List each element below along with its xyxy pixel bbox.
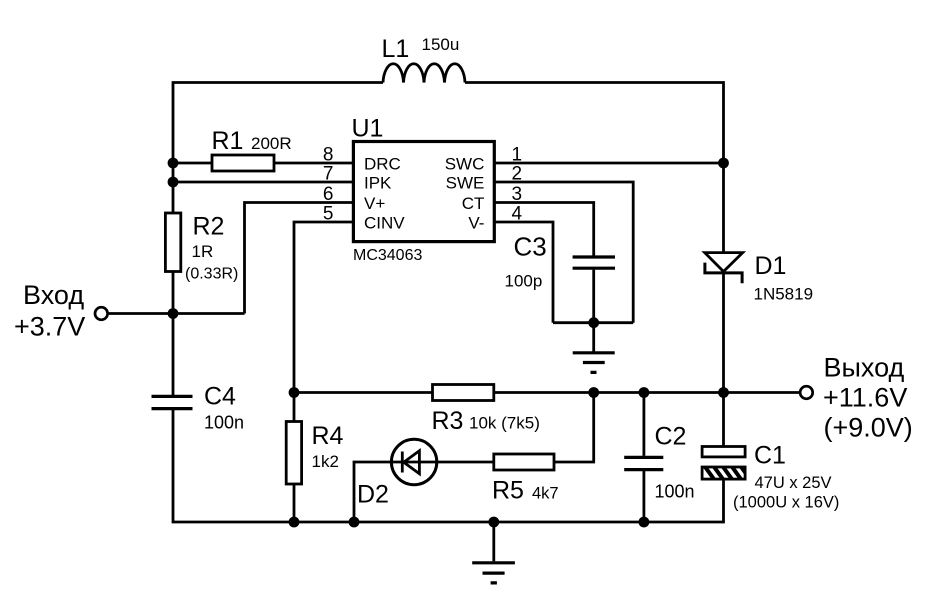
capacitor C3	[573, 257, 615, 268]
svg-text:DRC: DRC	[364, 155, 401, 174]
svg-text:150u: 150u	[422, 35, 460, 54]
svg-text:R4: R4	[312, 422, 344, 450]
output terminal	[800, 386, 813, 399]
resistor R5	[494, 454, 554, 470]
ground near C3	[573, 353, 615, 373]
diode D1 schottky	[705, 253, 743, 272]
svg-text:3: 3	[512, 184, 523, 205]
svg-text:SWC: SWC	[445, 155, 485, 174]
svg-text:IPK: IPK	[364, 174, 392, 193]
wire R2 bottom to C4 top	[172, 272, 175, 397]
node IPK junction	[168, 177, 179, 188]
node output junction	[718, 387, 729, 398]
svg-text:SWE: SWE	[446, 174, 485, 193]
diode D2	[391, 439, 436, 484]
node C2 bottom junction	[639, 517, 650, 528]
svg-text:CT: CT	[462, 194, 485, 213]
svg-text:+3.7V: +3.7V	[14, 312, 85, 342]
capacitor C1 polarized	[702, 447, 745, 457]
svg-text:1: 1	[512, 145, 523, 166]
svg-text:CINV: CINV	[364, 214, 405, 233]
svg-text:D1: D1	[755, 252, 787, 280]
svg-text:V+: V+	[364, 194, 385, 213]
wire pin 7 row to IPK	[173, 181, 353, 184]
resistor R4	[286, 422, 301, 485]
wire R5 drop from feedback row	[554, 393, 594, 463]
svg-text:R1: R1	[212, 127, 244, 155]
wire C3 bottom stem and ground stub	[592, 270, 595, 353]
svg-text:D2: D2	[357, 481, 389, 509]
wire C1 top stem	[722, 393, 725, 447]
svg-text:C2: C2	[655, 423, 687, 451]
svg-text:47U x 25V: 47U x 25V	[755, 474, 832, 492]
svg-text:R2: R2	[193, 213, 225, 241]
wire pin 8 row through R1	[173, 162, 353, 165]
capacitor C4	[152, 396, 193, 408]
wire pin 5 CINV branch down to feedback row	[294, 222, 353, 393]
node R4 top junction	[289, 387, 300, 398]
wire pin 1 SWC row	[494, 162, 723, 165]
node R1 top junction	[168, 158, 179, 169]
node SWC junction	[718, 158, 729, 169]
svg-text:100n: 100n	[204, 413, 244, 433]
resistor R1	[212, 155, 274, 171]
svg-text:4k7: 4k7	[532, 485, 559, 503]
inductor L1	[383, 64, 465, 83]
wire D1 bottom stem	[722, 272, 725, 393]
wire D2 left branch to bottom rail	[354, 462, 390, 522]
wire C2 stems	[643, 393, 646, 523]
wire pin 4 V- branch	[494, 222, 553, 323]
wire C4 bottom, bottom rail, up to C1	[173, 409, 724, 522]
wire pin 6 V+ branch	[245, 203, 354, 314]
wire input row	[109, 312, 245, 315]
node ground junction	[488, 517, 499, 528]
svg-text:1N5819: 1N5819	[754, 285, 814, 304]
wire top-left rail from R2 top up and across to L1	[173, 83, 383, 214]
svg-text:C3: C3	[514, 232, 547, 262]
wire ground stub bottom	[492, 522, 495, 561]
node input junction	[168, 308, 179, 319]
svg-text:7: 7	[323, 164, 334, 185]
node C2 top junction	[639, 387, 650, 398]
ground bottom rail	[472, 563, 515, 583]
node C3 ground junction	[588, 317, 599, 328]
svg-text:R3: R3	[432, 407, 464, 435]
wire R5 to D2	[390, 461, 494, 464]
svg-text:U1: U1	[352, 115, 384, 143]
svg-text:6: 6	[323, 184, 334, 205]
svg-text:100p: 100p	[505, 272, 543, 291]
node R5 drop junction	[588, 387, 599, 398]
op-amp U1 box MC34063	[353, 142, 494, 242]
wire C3 bottom rail	[553, 321, 633, 324]
svg-text:100n: 100n	[655, 482, 695, 502]
svg-text:C1: C1	[754, 442, 786, 470]
wire pin 3 CT branch to C3	[494, 203, 593, 256]
svg-text:R5: R5	[492, 477, 524, 505]
resistor R3	[433, 385, 494, 401]
svg-text:Вход: Вход	[23, 280, 84, 310]
svg-text:10k (7k5): 10k (7k5)	[469, 414, 540, 433]
svg-text:200R: 200R	[251, 134, 292, 153]
svg-text:L1: L1	[382, 35, 410, 63]
svg-text:(0.33R): (0.33R)	[185, 266, 238, 283]
input terminal	[95, 307, 108, 320]
svg-text:(1000U x 16V): (1000U x 16V)	[733, 494, 839, 512]
svg-text:V-: V-	[468, 214, 484, 233]
svg-text:8: 8	[323, 145, 334, 166]
wire feedback row left of R3	[294, 391, 433, 394]
wire pin 2 SWE branch	[494, 182, 633, 323]
svg-text:1k2: 1k2	[312, 452, 339, 471]
svg-text:Выход: Выход	[824, 353, 905, 383]
svg-text:1R: 1R	[192, 242, 214, 261]
wire feedback row right of R3 to output	[494, 391, 800, 394]
wire top rail right and down right vertical to D1	[465, 83, 724, 253]
svg-text:MC34063: MC34063	[353, 247, 422, 264]
svg-text:C4: C4	[204, 383, 236, 411]
node junction dots	[168, 158, 729, 528]
svg-text:5: 5	[323, 204, 334, 225]
wire R4 stems	[293, 393, 296, 523]
capacitor C2	[624, 457, 663, 469]
node R4 bottom junction	[289, 517, 300, 528]
svg-text:2: 2	[512, 164, 523, 185]
resistor R2	[165, 213, 180, 272]
svg-text:(+9.0V): (+9.0V)	[824, 413, 913, 443]
svg-text:+11.6V: +11.6V	[823, 383, 907, 413]
svg-text:4: 4	[512, 204, 523, 225]
node D2 bottom junction	[349, 517, 360, 528]
